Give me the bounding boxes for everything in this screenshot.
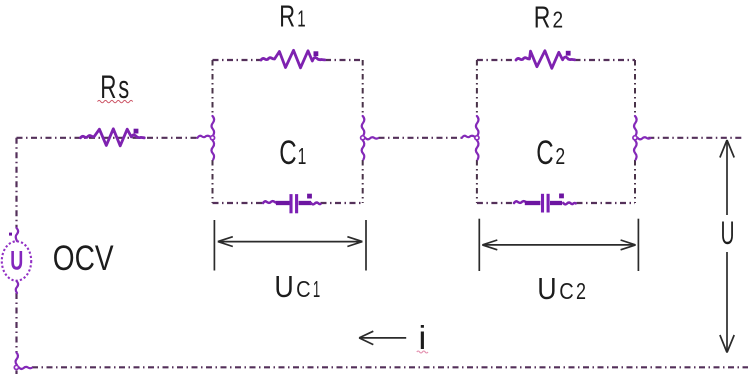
node E: [14, 353, 32, 370]
svg-text:1: 1: [298, 143, 307, 169]
label OCV: [53, 239, 114, 278]
resistor R1: [261, 50, 325, 68]
svg-text:2: 2: [553, 7, 564, 33]
svg-text:OCV: OCV: [53, 239, 114, 278]
voltage arrow Uc1: [214, 220, 366, 304]
wire: [15, 293, 17, 374]
svg-text:1: 1: [297, 6, 305, 32]
svg-text:U: U: [10, 246, 23, 276]
voltage arrow U: [720, 140, 734, 353]
label C2: [536, 134, 565, 172]
wire: [32, 366, 748, 368]
svg-text:C: C: [279, 134, 296, 172]
wire: [476, 60, 478, 203]
label R1: [279, 0, 305, 34]
node D: [633, 116, 651, 160]
current arrow i: [359, 319, 428, 356]
wire: [379, 137, 462, 139]
svg-text:C: C: [536, 134, 553, 172]
voltage arrow Uc2: [479, 219, 638, 306]
svg-text:R: R: [534, 0, 551, 35]
svg-text:C: C: [296, 276, 311, 302]
wire: [213, 202, 363, 204]
node B: [361, 116, 378, 160]
label R2: [534, 0, 563, 35]
wire: [477, 59, 635, 61]
wire: [15, 138, 17, 228]
wire: [362, 60, 364, 203]
svg-text:C: C: [559, 278, 574, 304]
svg-text:R: R: [279, 0, 295, 34]
wire: [477, 202, 635, 204]
label Rs: [98, 69, 133, 105]
wire: [17, 137, 198, 139]
svg-text:2: 2: [555, 143, 565, 169]
capacitor C2: [514, 194, 576, 213]
svg-text:1: 1: [313, 276, 320, 302]
svg-text:R: R: [100, 69, 116, 105]
svg-text:i: i: [418, 319, 426, 356]
svg-text:U: U: [721, 215, 735, 251]
capacitor C1: [263, 194, 320, 214]
wire: [648, 137, 742, 139]
svg-text:s: s: [118, 69, 129, 105]
svg-text:2: 2: [576, 278, 586, 304]
wire: [634, 60, 636, 203]
resistor R2: [516, 51, 575, 69]
node C: [462, 116, 479, 160]
node A: [198, 116, 215, 160]
wire: [212, 60, 214, 203]
svg-text:U: U: [274, 269, 293, 304]
resistor Rs: [81, 129, 145, 146]
wire: [213, 59, 363, 61]
label C1: [279, 134, 306, 172]
svg-text:U: U: [537, 271, 556, 306]
voltage source OCV: [2, 228, 31, 293]
